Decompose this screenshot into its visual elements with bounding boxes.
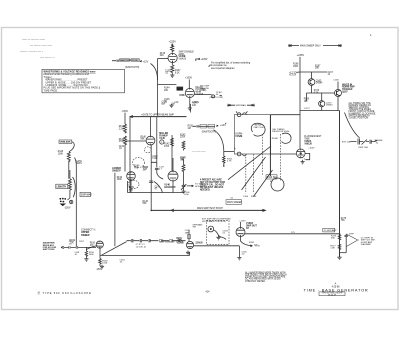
svg-text:100K: 100K: [102, 263, 108, 265]
label V135B: [179, 50, 195, 60]
label R142: [164, 144, 170, 148]
dc shift brace: [347, 234, 359, 246]
ground below right bus: [337, 253, 341, 260]
trimmer arrow across C146: [181, 184, 186, 190]
label SEL timing resistor: [272, 129, 290, 133]
arrow TO holdoff: [187, 184, 206, 188]
svg-text:470K: 470K: [164, 146, 170, 148]
wire left bus x76.5 down: [75, 166, 77, 247]
svg-text:1M: 1M: [143, 169, 146, 171]
svg-text:R160D: R160D: [272, 138, 279, 140]
label C143: [180, 157, 186, 161]
tube V159B magnifier: [186, 241, 193, 248]
resistor R158: [85, 251, 87, 257]
wire lower rail y110.5: [300, 110, 340, 112]
ground below V145: [188, 106, 192, 111]
resistor R131: [124, 124, 127, 133]
cable curve from J160: [214, 230, 227, 240]
wire V146 top up: [172, 158, 174, 171]
label R170 4.7K: [314, 90, 320, 94]
connector J160: [208, 226, 214, 232]
wiper curve of sweep length pot: [73, 177, 76, 197]
ground bottom-left: [100, 265, 104, 269]
wire +225V column down: [299, 57, 301, 149]
tiny registration mark top right: [370, 35, 371, 36]
wire +100V down to V145: [188, 79, 190, 88]
node +12V (lower): [216, 123, 226, 127]
svg-text:SW: SW: [193, 227, 196, 229]
label R163 100K: [102, 260, 108, 264]
wire branch down from arc: [223, 152, 225, 166]
ground left of V145: [170, 104, 174, 108]
svg-text:1.8K: 1.8K: [330, 248, 335, 250]
label on +GATE line: [141, 114, 174, 117]
label R132: [119, 139, 125, 143]
wire V140 plate up to +GATE line: [150, 117, 152, 137]
label R166: [293, 64, 299, 68]
label C147 4.7: [159, 167, 165, 171]
footer left TYPE 502: [38, 291, 92, 295]
wire pot bottom: [67, 191, 70, 200]
svg-text:+225V: +225V: [297, 54, 305, 57]
ground below C146: [182, 190, 186, 194]
svg-text:150K: 150K: [179, 95, 185, 97]
diagonal wiper line (steep 2): [254, 170, 273, 196]
arrow at left of +GATE line: [130, 115, 133, 118]
label C131 8pF: [162, 102, 168, 106]
label MAIN SWP TEST POINT: [197, 207, 223, 210]
wire Q163-Q173 links: [307, 85, 335, 110]
leader curve to ext cap fragment: [345, 113, 360, 139]
svg-text:V159B: V159B: [177, 243, 184, 245]
dark label 1947 right of tube: [195, 241, 203, 244]
ground in dashed box: [216, 236, 220, 240]
svg-text:15K: 15K: [304, 101, 308, 103]
resistor R163: [99, 259, 102, 267]
label CONNECT TO V159A (bold): [81, 228, 95, 237]
wire x130 long vertical: [129, 117, 131, 193]
node +12 to +13.5V: [289, 72, 300, 77]
tube V161: [236, 228, 245, 237]
junction dot V140 column to test line: [150, 210, 152, 212]
tube V152A: [296, 149, 305, 158]
node +12V (upper arrow): [140, 60, 149, 63]
wire R142 column: [171, 135, 173, 171]
svg-text:A+B: A+B: [134, 167, 139, 170]
wire branch down x239.4: [238, 246, 240, 258]
node +225V (right column): [297, 54, 305, 57]
dashed switch section line A: [261, 134, 263, 176]
svg-text:8pF: 8pF: [162, 104, 166, 106]
svg-text:39K: 39K: [315, 68, 319, 70]
svg-text:220K: 220K: [180, 137, 186, 139]
label R175 75K: [341, 218, 347, 222]
svg-text:-150V: -150V: [96, 269, 103, 271]
svg-text:47K: 47K: [90, 245, 94, 247]
label L-2500 lower beam (bold): [112, 167, 121, 173]
timing switch box SW160: [234, 115, 270, 154]
boxed subtitle under title: [319, 292, 345, 296]
svg-text:EXT CAP: EXT CAP: [342, 141, 352, 144]
svg-text:22K: 22K: [160, 55, 165, 57]
svg-text:see important diagram: see important diagram: [211, 67, 235, 70]
label R159 27K: [70, 240, 76, 244]
box label SWEEP LENGTH: [56, 184, 68, 188]
wire box top to +225V column: [271, 114, 301, 116]
wire upper rail y72: [300, 71, 327, 73]
svg-text:C160: C160: [243, 196, 249, 198]
wire Q167 top / bottom: [337, 82, 339, 111]
balloon circle lower (timing resistor sel): [271, 178, 284, 191]
svg-text:1M: 1M: [188, 128, 191, 130]
wire vertical bus x157.5: [157, 59, 159, 116]
tube V135B (sweep gate): [168, 53, 177, 62]
svg-text:-150V: -150V: [64, 207, 71, 210]
wire left column down: [124, 146, 126, 172]
arrow tick on test line: [171, 209, 266, 212]
label #160 pair: [243, 196, 257, 198]
label MAGNIFIER REGIS (dark): [43, 242, 57, 252]
label C159 above line: [69, 241, 75, 245]
label C135: [165, 70, 171, 74]
junction dot: [223, 165, 225, 167]
node -150V below pot: [64, 207, 71, 210]
labels below line R156: [89, 252, 95, 256]
label R176 56K: [331, 235, 337, 239]
svg-text:AMPL: AMPL: [76, 162, 83, 165]
label R147 1M: [181, 157, 187, 161]
label V145: [196, 86, 207, 96]
label V152A (bold block): [304, 136, 322, 145]
ext timing cap fragment: [342, 139, 383, 150]
wire lower long line y255.4: [100, 252, 190, 255]
svg-text:TO HOR AMP: TO HOR AMP: [324, 229, 337, 232]
dashed ellipse (neon B140A): [144, 147, 151, 153]
svg-text:MAIN SWEEP: MAIN SWEEP: [227, 201, 242, 204]
label R177: [330, 245, 336, 249]
svg-text:TYPE 502 OSCILLOSCOPE: TYPE 502 OSCILLOSCOPE: [322, 293, 344, 295]
svg-text:82K: 82K: [177, 88, 182, 91]
wire -150V feed down: [124, 113, 126, 124]
wire arc from box to R118: [69, 142, 74, 152]
label D172: [304, 108, 310, 110]
svg-text:V140: V140: [159, 137, 165, 140]
capacitor C146: [182, 185, 186, 189]
wire wiper join to left bus: [75, 158, 77, 167]
balloon ellipse timing resistor: [282, 133, 292, 143]
faint ghost text lower left of center: [192, 151, 206, 154]
label R135: [160, 53, 166, 57]
small box label in balloon: [266, 175, 278, 179]
svg-text:2.2M: 2.2M: [119, 128, 124, 130]
label C165 .02: [241, 251, 247, 255]
wire V161 plate up: [240, 222, 242, 228]
wire V145 cathode down: [189, 98, 191, 106]
label C145 / x10: [164, 99, 179, 104]
label V146 HOLDOFF (dark): [164, 184, 176, 190]
label R145 150K (dark): [179, 95, 185, 97]
wire +225V small stub: [190, 104, 192, 113]
resistor R143 upper: [182, 141, 185, 151]
svg-text:+100V: +100V: [185, 77, 192, 80]
label C161 .02: [230, 197, 234, 199]
wire V161 cathode down-curve: [241, 237, 253, 246]
svg-text:--- ------ ----- ----: --- ------ ----- ----: [30, 43, 52, 47]
label R146: [192, 102, 198, 106]
wire bottom rail y192.5: [128, 192, 185, 194]
label inside dashed ellipse: [134, 166, 140, 170]
svg-text:--- ------ -----: --- ------ -----: [192, 151, 206, 154]
svg-text:D172: D172: [304, 108, 310, 110]
svg-text:(SAWTOOTH): (SAWTOOTH): [125, 66, 140, 69]
label Q163: [316, 80, 323, 84]
title TIME-BASE GENERATOR: [304, 287, 369, 292]
svg-text:56K: 56K: [141, 139, 145, 141]
transistor Q167 (dark emitter): [335, 90, 342, 97]
svg-text:Ⓟ TYPE 502 OSCILLOSCOPE: Ⓟ TYPE 502 OSCILLOSCOPE: [38, 291, 92, 295]
svg-text:+225V: +225V: [169, 41, 177, 44]
heater bumps bottom-left of box: [237, 152, 246, 156]
wire V139 to rail: [128, 181, 132, 193]
capacitor C144 boxed dark label: [177, 87, 184, 91]
heater bumps top-left of box: [236, 111, 247, 116]
bottom-left: tube V159A chain: [99, 247, 101, 258]
node -150V bottom: [96, 269, 103, 271]
label C146 8-50: [184, 192, 190, 196]
svg-text:2N964: 2N964: [316, 83, 323, 85]
label above V161: [239, 220, 246, 222]
svg-text:100K: 100K: [58, 154, 64, 156]
wire arc from +12V to bus: [151, 64, 158, 81]
rotary contact dots cluster: [59, 198, 66, 206]
resistor R132: [124, 136, 127, 146]
label MAIN SWP TRIG (bold): [342, 83, 355, 93]
ground below R158: [84, 257, 88, 261]
svg-text:---- ------ --: ---- ------ --: [40, 55, 55, 59]
svg-text:SWP CAL: SWP CAL: [358, 146, 369, 149]
transistor Q173: [319, 101, 325, 107]
resistor R176 on bus (zigzag): [338, 235, 341, 240]
svg-text:8-50: 8-50: [184, 194, 189, 196]
label GATE AMPL: [76, 160, 83, 165]
label R150: [188, 126, 194, 130]
transistor Q163: [308, 79, 315, 86]
wire V140 below: [150, 145, 152, 210]
dark note paragraph (preset adjustments): [200, 179, 225, 192]
tube V140 (miller runup): [146, 136, 155, 145]
arrow to B sweep: [250, 245, 260, 248]
svg-text:SWP/MAG: SWP/MAG: [81, 194, 92, 197]
svg-text:(SAWTOOTH): (SAWTOOTH): [202, 130, 217, 133]
svg-text:+225V: +225V: [193, 102, 200, 104]
label at left edge (swp/mag sw): [160, 241, 176, 244]
resistor R147: [182, 159, 185, 186]
wire V152A right loop: [305, 153, 310, 159]
svg-text:+225V: +225V: [201, 58, 208, 61]
svg-text:SWEEP: SWEEP: [112, 170, 121, 173]
node +100V above V145: [185, 77, 192, 80]
node +225V (top feed to V135B): [169, 41, 177, 44]
diagonal wiper line (steep 1): [242, 157, 266, 190]
svg-text:R160: R160: [251, 196, 257, 198]
wire to V135B grid: [158, 58, 169, 60]
label R133: [172, 103, 175, 105]
dark right edge of box: [269, 115, 271, 176]
tube V159A: [96, 241, 103, 248]
mag input chain (caps and resistors): [127, 239, 186, 242]
wire right bus x339.5: [339, 111, 341, 258]
labels under mag chain: [136, 244, 147, 248]
svg-text:56K: 56K: [331, 238, 335, 240]
svg-text:Q167: Q167: [342, 92, 348, 94]
dimension annotation +gate (middle): [228, 104, 254, 107]
svg-text:RESISTOR R160: RESISTOR R160: [272, 131, 290, 133]
capacitor C140 on line: [149, 181, 153, 182]
svg-text:+12V: +12V: [220, 124, 226, 127]
sawtooth interconnect chain (upper): [112, 59, 140, 69]
svg-text:V152B: V152B: [235, 136, 242, 138]
dimension annotation main sweep (top): [289, 44, 341, 48]
sawtooth connector chain (lower): [193, 124, 217, 133]
labels below line C158: [74, 252, 80, 256]
svg-text:R157: R157: [79, 241, 85, 243]
svg-text:12K: 12K: [192, 105, 197, 107]
wire lower-left horizontal with caps: [61, 246, 96, 249]
wire jog to holdoff cap: [151, 117, 163, 179]
svg-text:SHIFT R158: SHIFT R158: [43, 249, 55, 251]
label R160 47K: [90, 243, 96, 247]
revision mark A / date: [332, 283, 340, 289]
label TP164: [119, 260, 125, 264]
ground below V159B: [186, 251, 190, 255]
label C168: [333, 79, 339, 81]
svg-text:4.7K: 4.7K: [227, 161, 232, 163]
svg-text:OHM/VOLT METER.: OHM/VOLT METER.: [245, 281, 266, 283]
node label A at box corner: [234, 147, 236, 150]
wire grid feed to V140: [125, 140, 146, 142]
resistor R118 (gate ampl): [67, 152, 70, 161]
curve C141 to rail: [154, 182, 163, 193]
box label right of pot: [80, 192, 92, 196]
notes box (conditions for waveforms): [42, 69, 125, 92]
svg-text:-150V: -150V: [122, 110, 129, 113]
capacitor C176 47pF branch: [345, 234, 348, 253]
ground below x239.4: [237, 258, 241, 261]
dashed switch section line B: [280, 134, 282, 181]
svg-text:.01 10K .01: .01 10K .01: [136, 246, 147, 248]
node TO +225V (arrow near V145): [196, 58, 208, 61]
wire sweep output line: [245, 233, 340, 235]
label L159: [185, 230, 190, 234]
svg-text:------- -------- --- -: ------- -------- --- -: [20, 49, 43, 53]
wire +GATE line to upper beam: [130, 116, 187, 118]
svg-text:MAIN SWP TEST POINT: MAIN SWP TEST POINT: [197, 207, 223, 210]
boxed label below switch: [226, 200, 242, 205]
svg-text:DIAGRAM: DIAGRAM: [361, 243, 371, 246]
label 175 on output line: [291, 232, 295, 234]
wire V145 plate output to test point: [194, 94, 211, 96]
dc shift note: [361, 238, 376, 246]
svg-text:+12V: +12V: [143, 60, 149, 63]
svg-text:2N964: 2N964: [326, 105, 333, 107]
label R141: [143, 167, 149, 171]
wire V146 bottom to rail: [172, 181, 174, 192]
label MILLER RUNUP (dark): [159, 132, 168, 140]
label R167: [315, 65, 321, 69]
svg-text:20K: 20K: [164, 90, 169, 92]
label timing capacitor: [254, 125, 265, 129]
dark label V161B (above tube): [246, 223, 257, 230]
svg-text:SAWTOOTH: SAWTOOTH: [120, 59, 131, 62]
wire box bottom to V152A: [271, 153, 297, 155]
wire to timing box left: [224, 151, 235, 153]
label R118: [58, 151, 64, 155]
label R146b: [143, 201, 149, 205]
junction dot on test line: [262, 210, 264, 212]
dashed ellipse B: [128, 180, 139, 188]
note paragraph (waveforms taken with): [245, 271, 287, 282]
wire V145 grid to bus: [158, 84, 177, 86]
svg-text:SWP/MAG: SWP/MAG: [236, 104, 247, 107]
ground below V152A: [301, 160, 305, 164]
dashed ellipse (neon timing): [133, 158, 145, 168]
dashed box EXT sweep input: [207, 221, 230, 245]
label C162 82: [270, 181, 273, 183]
tube V145 (delay pickoff): [185, 88, 194, 97]
tube V146 (holdoff): [168, 171, 178, 181]
label under ellipse B: [129, 187, 135, 191]
label C163 0.1: [223, 230, 229, 234]
node +100V near V152A: [308, 148, 315, 150]
wire magnifier output right: [194, 245, 240, 247]
miller column: label -150V: [122, 110, 129, 113]
label R143: [180, 134, 186, 138]
svg-text:TIME - BASE GENERATOR: TIME - BASE GENERATOR: [304, 287, 369, 292]
svg-text:1M: 1M: [172, 103, 175, 105]
label R137: [175, 70, 181, 74]
tube V139: [127, 172, 136, 181]
svg-text:R160 SEL: R160 SEL: [267, 177, 278, 179]
wire V135B cathode down: [171, 61, 173, 64]
label V152B inside box: [235, 134, 242, 138]
label C132: [119, 146, 125, 150]
svg-text:NEEDED.: NEEDED.: [200, 190, 211, 192]
resistor R142 on column: [171, 138, 174, 146]
label C152 5: [304, 158, 306, 160]
svg-text:270K: 270K: [119, 141, 125, 143]
label MAG AMP (bold): [177, 237, 184, 245]
arc from bus to V159: [86, 246, 97, 250]
svg-text:MAIN SWEEP ONLY: MAIN SWEEP ONLY: [300, 45, 321, 48]
node +225V small (right of miller): [193, 102, 200, 104]
label R151 4.7K: [227, 158, 233, 162]
svg-text:12AU6: 12AU6: [195, 241, 203, 244]
svg-text:56K: 56K: [143, 203, 147, 205]
resistor R177 on bus (zigzag): [338, 244, 341, 249]
balloon marker 2: [160, 140, 164, 144]
svg-text:75K: 75K: [341, 220, 345, 222]
svg-text:SWEEP: SWEEP: [81, 234, 90, 237]
resistor R135: [171, 46, 174, 53]
svg-text:HOLDOFF: HOLDOFF: [164, 186, 176, 189]
label R144: [164, 87, 170, 91]
svg-text:TIME PAGE.: TIME PAGE.: [44, 89, 59, 92]
svg-text:T120: T120: [152, 158, 158, 160]
svg-text:C168: C168: [333, 79, 339, 81]
label C140: [152, 156, 158, 160]
label R140: [141, 136, 147, 140]
svg-text:150K: 150K: [293, 66, 299, 68]
